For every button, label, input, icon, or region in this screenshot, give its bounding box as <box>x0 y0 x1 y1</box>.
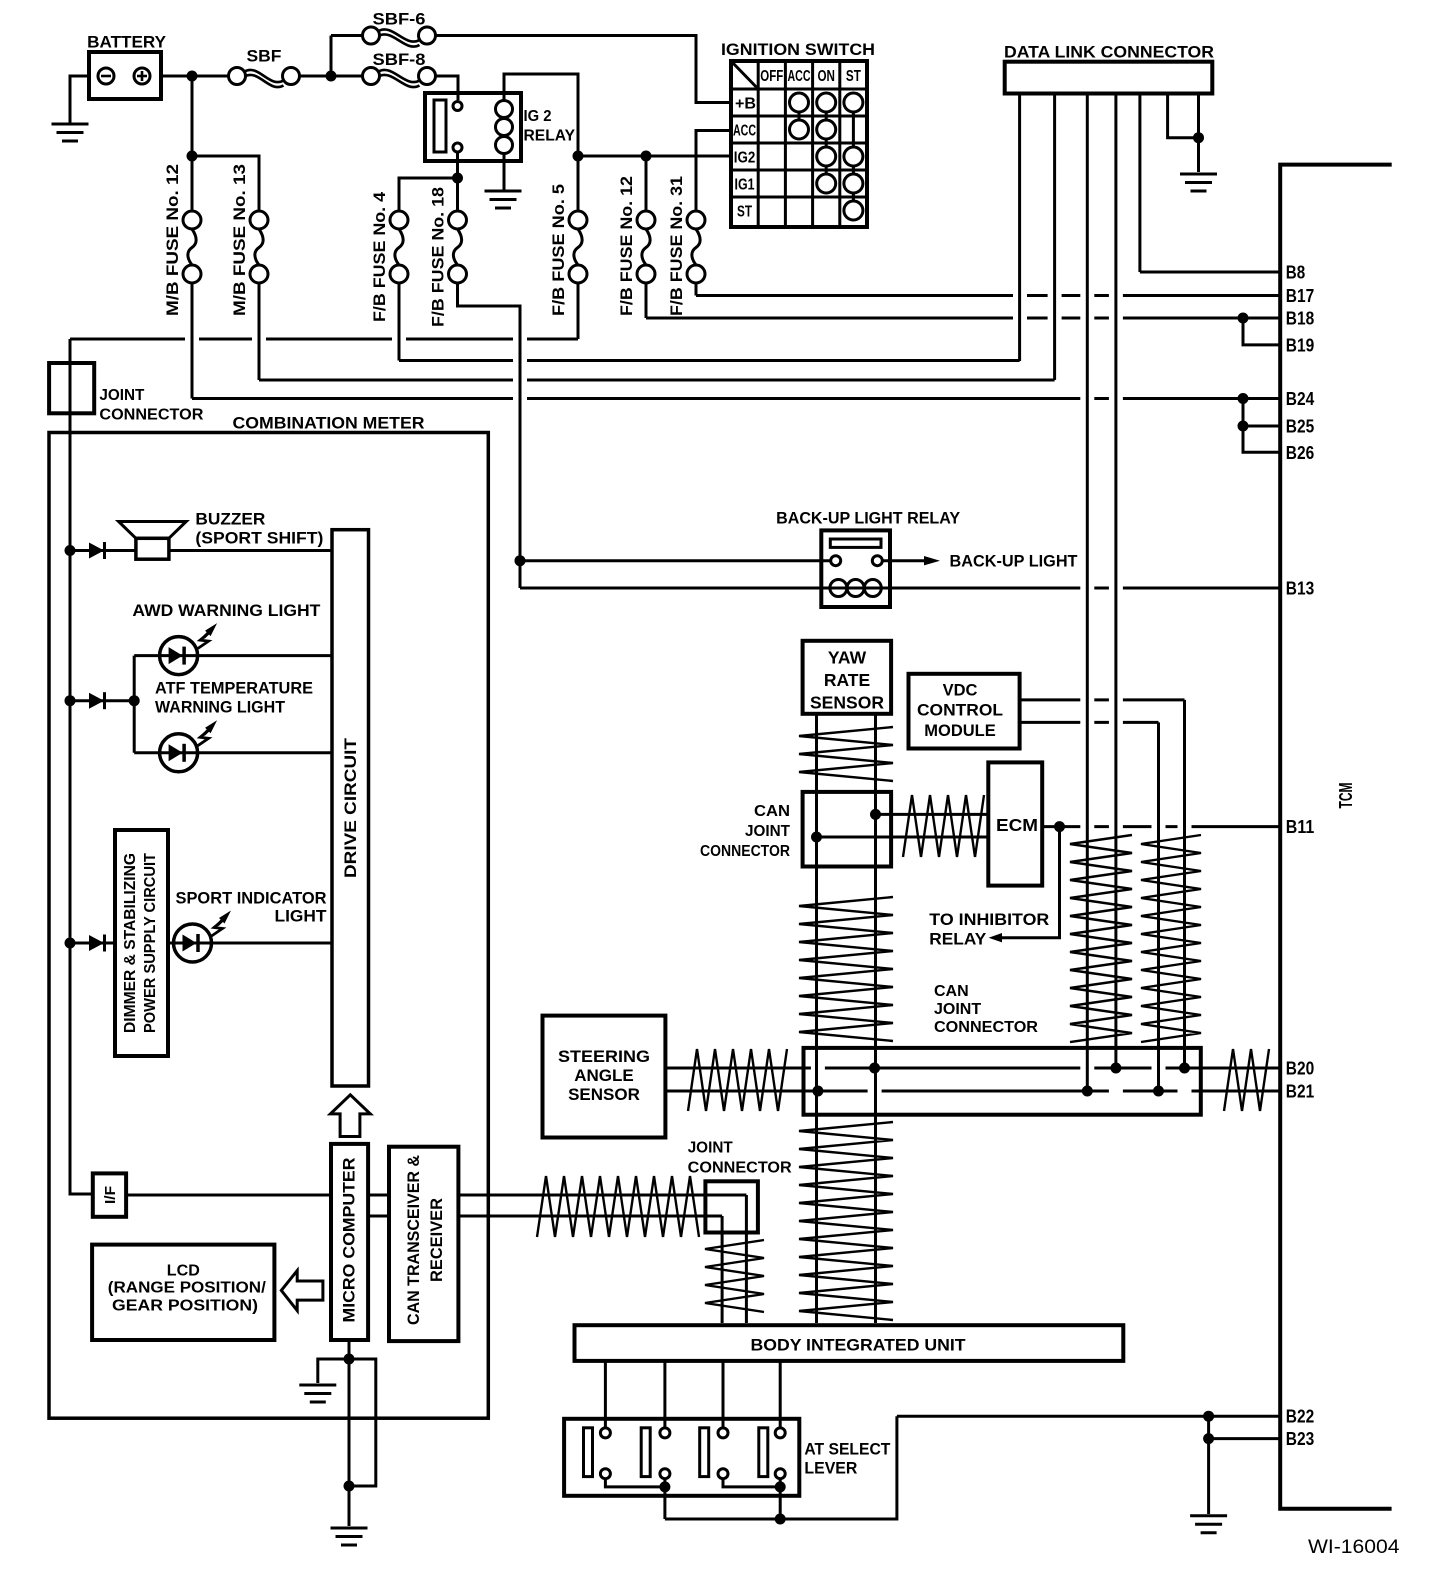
wire yaw rate right <box>874 714 877 1323</box>
wire VDC lower output <box>1020 721 1159 724</box>
ground data link connector <box>1180 174 1217 191</box>
wire VDC upper output <box>1020 698 1185 701</box>
CAN transceiver and receiver box <box>389 1147 458 1341</box>
svg-text:VDC: VDC <box>943 682 978 700</box>
TCM outline <box>1280 165 1392 1509</box>
wire back-up light output <box>883 559 925 562</box>
svg-text:ON: ON <box>817 68 835 85</box>
joint connector box middle <box>705 1181 758 1232</box>
svg-text:(RANGE POSITION/: (RANGE POSITION/ <box>108 1280 267 1297</box>
arrow LCD <box>281 1271 323 1311</box>
svg-text:B19: B19 <box>1286 335 1314 355</box>
svg-text:BACK-UP LIGHT: BACK-UP LIGHT <box>950 552 1079 571</box>
fuse F/B FUSE No. 5 <box>569 211 587 229</box>
svg-text:B26: B26 <box>1286 443 1314 463</box>
svg-text:ACC: ACC <box>788 68 811 85</box>
I/F box <box>93 1173 126 1216</box>
node G junction <box>1193 132 1204 143</box>
CAN joint connector box upper <box>803 792 892 867</box>
svg-text:B25: B25 <box>1286 417 1314 437</box>
svg-text:I/F: I/F <box>102 1186 119 1204</box>
diode D1 <box>70 549 136 552</box>
svg-text:JOINT: JOINT <box>688 1140 733 1157</box>
svg-text:WI-16004: WI-16004 <box>1308 1536 1400 1558</box>
CAN joint connector box lower <box>804 1048 1201 1115</box>
svg-text:JOINT: JOINT <box>99 387 144 404</box>
node N junction <box>344 1481 355 1492</box>
svg-text:SENSOR: SENSOR <box>568 1085 640 1104</box>
svg-text:SBF-8: SBF-8 <box>373 50 426 69</box>
AT select lever bar 2 <box>641 1428 650 1477</box>
wire joint connector bus <box>70 339 93 1194</box>
AT lever contacts top <box>600 1428 610 1438</box>
wire ECM to B11 node <box>1042 825 1059 828</box>
wire battery to node A <box>161 75 192 78</box>
wire SBF to node B <box>300 75 332 78</box>
wire AT common to B22 <box>665 1416 897 1519</box>
twisted pair DLC CAN <box>1070 835 1132 1042</box>
node B21-1 junction <box>812 1086 823 1097</box>
wire B18 from F/B fuse 12 <box>645 283 648 318</box>
wire CAN transceiver to joint connector upper <box>458 1194 746 1197</box>
twisted pair CAN meter <box>537 1176 699 1237</box>
node B20-3 junction <box>1179 1063 1190 1074</box>
wire relay coil to ground <box>503 154 506 192</box>
svg-text:ECM: ECM <box>996 815 1038 835</box>
wire node D to F/B fuse 5 <box>577 156 580 211</box>
svg-text:IGNITION SWITCH: IGNITION SWITCH <box>721 41 875 59</box>
twisted pair VDC CAN <box>1141 835 1201 1042</box>
svg-text:RECEIVER: RECEIVER <box>427 1198 446 1282</box>
svg-text:YAW: YAW <box>828 648 867 668</box>
svg-text:GEAR POSITION): GEAR POSITION) <box>112 1298 258 1315</box>
body integrated unit box <box>575 1325 1124 1361</box>
buzzer (sport shift) <box>136 538 169 559</box>
wire joint connector output 2 <box>721 1216 724 1323</box>
fuse F/B FUSE No. 31 <box>687 211 705 229</box>
wire body unit pin 2 <box>663 1361 666 1428</box>
node B21-3 junction <box>1153 1086 1164 1097</box>
svg-text:SBF: SBF <box>247 47 282 66</box>
twisted pair yaw 1 <box>799 727 893 781</box>
dimmer and stabilizing power supply circuit box <box>115 830 168 1056</box>
relay IG2 contact pin top <box>453 102 462 111</box>
battery <box>89 52 161 99</box>
wire AT lever link 4 <box>779 1479 782 1487</box>
wire AT lever link 3 <box>723 1479 780 1487</box>
wire B11 <box>1060 825 1281 828</box>
wire steering sensor B21 <box>665 1090 1280 1093</box>
wire F/B fuse 18 to back-up relay <box>458 283 521 588</box>
node B23 junction <box>1203 1433 1214 1444</box>
svg-text:CONNECTOR: CONNECTOR <box>688 1160 792 1177</box>
svg-text:M/B FUSE No. 12: M/B FUSE No. 12 <box>164 164 182 316</box>
wire B23 <box>1209 1437 1281 1440</box>
wire node B to SBF-8 <box>331 75 363 78</box>
ground B23 <box>1190 1516 1227 1533</box>
relay IG2 coil <box>496 101 513 118</box>
wire body unit pin 4 <box>779 1361 782 1428</box>
svg-text:BATTERY: BATTERY <box>87 33 167 52</box>
node I junction <box>65 545 76 556</box>
twisted pair steering <box>688 1049 787 1111</box>
ECM box <box>988 762 1042 885</box>
relay IG2 contact pin bottom <box>453 143 462 152</box>
svg-text:DATA LINK CONNECTOR: DATA LINK CONNECTOR <box>1004 43 1214 62</box>
node M junction <box>344 1354 355 1365</box>
svg-text:CONNECTOR: CONNECTOR <box>700 843 790 860</box>
svg-text:BODY INTEGRATED UNIT: BODY INTEGRATED UNIT <box>751 1336 967 1355</box>
svg-text:CONNECTOR: CONNECTOR <box>934 1019 1038 1036</box>
ground bottom <box>331 1528 368 1545</box>
svg-text:CONNECTOR: CONNECTOR <box>99 407 203 424</box>
wire relay contact to node E <box>456 152 459 178</box>
svg-text:RATE: RATE <box>824 670 870 690</box>
wire buzzer to drive circuit <box>169 549 332 552</box>
wire AT common 2 <box>779 1487 782 1519</box>
data link connector pin 2 <box>1053 94 1056 381</box>
ground combination meter <box>299 1385 336 1402</box>
ignition switch table <box>731 61 867 227</box>
node B20-1 junction <box>869 1063 880 1074</box>
wire LED branch vertical <box>133 656 136 753</box>
wire B17 from F/B fuse 31 <box>695 283 698 296</box>
svg-text:F/B FUSE No. 18: F/B FUSE No. 18 <box>430 187 448 327</box>
svg-text:(SPORT SHIFT): (SPORT SHIFT) <box>195 529 323 548</box>
svg-text:CAN: CAN <box>754 803 790 820</box>
node B24 junction <box>1238 393 1249 404</box>
fuse SBF-6 <box>363 27 380 44</box>
wire B23 to ground <box>1207 1416 1210 1514</box>
svg-text:OFF: OFF <box>760 68 783 85</box>
wire node C to M/B fuse 12 <box>191 156 194 211</box>
node B11 junction <box>1054 821 1065 832</box>
svg-text:B24: B24 <box>1286 389 1314 409</box>
node B25 junction <box>1238 421 1249 432</box>
battery positive terminal <box>134 68 150 84</box>
node B22 junction <box>1203 1411 1214 1422</box>
svg-text:STEERING: STEERING <box>558 1047 650 1066</box>
svg-text:LIGHT: LIGHT <box>275 907 328 926</box>
svg-text:ANGLE: ANGLE <box>574 1066 634 1085</box>
wire B25 branch <box>1243 399 1280 427</box>
svg-text:B8: B8 <box>1286 263 1305 283</box>
svg-text:RELAY: RELAY <box>524 128 576 145</box>
svg-text:+B: +B <box>735 96 756 113</box>
svg-text:F/B FUSE No. 5: F/B FUSE No. 5 <box>550 184 568 316</box>
LED ATF temperature warning light <box>160 734 198 772</box>
wire body unit pin 3 <box>722 1361 725 1428</box>
wire relay contact feed <box>520 559 831 562</box>
wire node A down to node C <box>191 76 194 156</box>
node B junction <box>326 71 337 82</box>
ignition switch header diagonal <box>731 61 758 89</box>
svg-text:POWER SUPPLY CIRCUIT: POWER SUPPLY CIRCUIT <box>142 853 159 1033</box>
ignition switch contacts column ON <box>817 93 836 112</box>
VDC control module box <box>909 674 1020 749</box>
svg-text:JOINT: JOINT <box>745 823 790 840</box>
svg-text:MODULE: MODULE <box>924 722 996 740</box>
fuse M/B FUSE No. 12 <box>183 211 201 229</box>
battery negative terminal <box>98 68 114 84</box>
fuse F/B FUSE No. 4 <box>390 211 408 229</box>
svg-text:ST: ST <box>846 68 861 85</box>
node B18 junction <box>1238 313 1249 324</box>
joint connector box top-left <box>49 363 94 413</box>
wire relay coil B13 left <box>520 587 821 590</box>
twisted pair yaw 2 <box>799 897 893 1041</box>
node C junction <box>187 151 198 162</box>
svg-text:TCM: TCM <box>1336 783 1356 809</box>
svg-text:IG2: IG2 <box>734 150 756 167</box>
data link connector box <box>1005 62 1213 94</box>
data link connector pin 3 / CAN line <box>1086 94 1089 1092</box>
svg-text:ST: ST <box>737 204 752 221</box>
steering angle sensor box <box>543 1016 666 1138</box>
svg-text:SENSOR: SENSOR <box>810 693 884 713</box>
node CAN-H junction <box>870 809 881 820</box>
wire CAN transceiver to joint connector lower <box>458 1215 722 1218</box>
node J junction <box>65 695 76 706</box>
wire F/B fuse 5 to joint connector <box>577 283 580 339</box>
wire B22 <box>897 1415 1280 1418</box>
AT lever contacts bottom <box>600 1469 610 1479</box>
wire IG2 row to node D <box>578 155 731 158</box>
LCD box <box>92 1245 274 1340</box>
back-up relay coil <box>821 587 890 590</box>
wire B8 <box>1140 271 1280 274</box>
svg-text:B11: B11 <box>1286 817 1314 837</box>
svg-text:CAN TRANSCEIVER &: CAN TRANSCEIVER & <box>404 1155 423 1325</box>
node AT-2 junction <box>775 1481 786 1492</box>
fuse F/B FUSE No. 12 <box>637 211 655 229</box>
wire to SBF-6 <box>331 34 363 37</box>
svg-text:DRIVE CIRCUIT: DRIVE CIRCUIT <box>341 737 360 878</box>
node D junction <box>573 151 584 162</box>
wire F/B fuse 4 to data link pin 1 <box>398 283 401 361</box>
wire M/B fuse 12 to B24 <box>191 283 194 399</box>
ignition switch contacts column ACC <box>790 93 809 112</box>
AT select lever bar 3 <box>700 1428 709 1477</box>
node CAN-L junction <box>811 832 822 843</box>
svg-text:LCD: LCD <box>167 1263 200 1280</box>
node F junction <box>641 151 652 162</box>
svg-text:BUZZER: BUZZER <box>195 510 265 529</box>
wire steering sensor B20 <box>665 1067 1280 1070</box>
svg-text:F/B FUSE No. 4: F/B FUSE No. 4 <box>371 191 389 322</box>
svg-text:IG 2: IG 2 <box>524 108 552 125</box>
wire CAN joint to ECM lower <box>817 836 989 839</box>
node AT-1 junction <box>659 1481 670 1492</box>
svg-text:TO INHIBITOR: TO INHIBITOR <box>929 910 1049 929</box>
wire SBF-8 to relay contact <box>436 76 459 100</box>
data link connector pin 5 to B8 <box>1138 94 1141 273</box>
wire B26 branch <box>1243 426 1280 452</box>
svg-text:AT SELECT: AT SELECT <box>804 1440 891 1459</box>
node H junction <box>515 555 526 566</box>
wire ground loop <box>349 1359 376 1486</box>
wire node F to F/B fuse 12 <box>645 156 648 211</box>
data link connector pin 1 <box>1018 94 1021 362</box>
svg-text:F/B FUSE No. 12: F/B FUSE No. 12 <box>618 176 636 316</box>
wire node A to SBF <box>192 75 229 78</box>
relay IG2 box <box>425 93 521 161</box>
twisted pair yaw 3 <box>799 1122 893 1320</box>
fuse SBF <box>229 68 246 85</box>
wire node E to F/B fuse 4 <box>399 178 458 211</box>
svg-text:LEVER: LEVER <box>804 1459 857 1478</box>
wire node C to M/B fuse 13 branch <box>192 156 259 211</box>
node B21-2 junction <box>1082 1086 1093 1097</box>
diode D2 <box>70 699 134 702</box>
svg-text:SBF-6: SBF-6 <box>373 10 426 29</box>
svg-text:B18: B18 <box>1286 309 1314 329</box>
wire AT lever link 2 <box>663 1479 666 1487</box>
wire AWD LED row <box>134 654 332 657</box>
svg-text:B20: B20 <box>1286 1059 1314 1079</box>
svg-text:ATF TEMPERATURE: ATF TEMPERATURE <box>155 679 313 698</box>
node A junction <box>187 71 198 82</box>
AT select lever bar 1 <box>584 1428 593 1477</box>
fuse M/B FUSE No. 13 <box>250 211 268 229</box>
node AT-3 junction <box>775 1514 786 1525</box>
svg-text:AWD WARNING LIGHT: AWD WARNING LIGHT <box>132 601 321 620</box>
ground relay <box>485 191 522 208</box>
micro computer box <box>331 1144 368 1340</box>
svg-text:MICRO COMPUTER: MICRO COMPUTER <box>340 1158 359 1323</box>
drive circuit box <box>332 530 369 1086</box>
wire to bottom ground <box>348 1486 351 1526</box>
ignition switch contacts column ST <box>844 93 863 112</box>
twisted pair joint to body unit <box>705 1240 764 1312</box>
wire yaw rate left <box>815 714 818 1323</box>
twisted pair ECM <box>903 795 984 857</box>
wire relay coil to IG2 node D <box>504 74 578 156</box>
LED AWD warning light <box>160 637 198 675</box>
svg-text:B13: B13 <box>1286 579 1314 599</box>
back-up relay contact right <box>872 556 882 566</box>
svg-text:COMBINATION METER: COMBINATION METER <box>233 414 425 433</box>
svg-text:SPORT INDICATOR: SPORT INDICATOR <box>176 889 327 908</box>
wire CAN joint to ECM upper <box>876 813 989 816</box>
svg-text:M/B FUSE No. 13: M/B FUSE No. 13 <box>231 164 249 316</box>
wire M/B fuse 13 to data link pin 2 <box>258 283 261 380</box>
wire micro computer to CAN transceiver lower <box>368 1215 389 1218</box>
wire ignition ACC to F/B fuse 31 <box>696 131 731 212</box>
wire micro computer to CAN transceiver upper <box>368 1194 389 1197</box>
node E junction <box>452 173 463 184</box>
svg-text:F/B FUSE No. 31: F/B FUSE No. 31 <box>668 176 686 316</box>
svg-text:B23: B23 <box>1286 1429 1314 1449</box>
svg-text:B17: B17 <box>1286 286 1314 306</box>
fuse SBF-8 <box>363 68 380 85</box>
LED sport indicator light <box>174 924 212 962</box>
wire body unit pin 1 <box>604 1361 607 1428</box>
wire SBF-6 to ignition +B <box>436 36 732 103</box>
wire micro computer ground <box>348 1340 351 1359</box>
wire node E to F/B fuse 18 <box>456 178 459 211</box>
wire to inhibitor relay <box>1002 827 1060 938</box>
svg-text:ACC: ACC <box>733 123 756 140</box>
wire AT common 1 <box>663 1487 666 1519</box>
svg-text:IG1: IG1 <box>735 177 755 194</box>
back-up relay contact left <box>831 556 841 566</box>
AT select lever bar 4 <box>759 1428 768 1477</box>
svg-text:B21: B21 <box>1286 1082 1314 1102</box>
back-up light relay box <box>821 530 890 607</box>
wire B19 branch <box>1243 318 1280 345</box>
data link connector pin 4 / CAN line <box>1114 94 1117 1069</box>
svg-text:BACK-UP LIGHT RELAY: BACK-UP LIGHT RELAY <box>776 509 961 528</box>
svg-text:CAN: CAN <box>934 983 969 1000</box>
data link connector pin 6 <box>1168 94 1199 138</box>
wire node B up to SBF-6 <box>330 36 333 77</box>
wire AT lever link 1 <box>605 1479 665 1487</box>
wire battery to ground <box>70 76 89 124</box>
svg-text:DIMMER & STABILIZING: DIMMER & STABILIZING <box>122 853 139 1033</box>
AT select lever box <box>564 1419 799 1496</box>
node B20-2 junction <box>1110 1063 1121 1074</box>
svg-text:RELAY: RELAY <box>929 930 987 949</box>
node L junction <box>65 938 76 949</box>
svg-text:WARNING LIGHT: WARNING LIGHT <box>155 698 286 717</box>
svg-text:CONTROL: CONTROL <box>917 702 1003 720</box>
wire I/F to micro computer <box>126 1194 331 1197</box>
yaw rate sensor box <box>803 641 892 714</box>
wire to ground left <box>318 1359 349 1383</box>
arrow drive circuit <box>330 1095 370 1137</box>
fuse F/B FUSE No. 18 <box>449 211 467 229</box>
wire B13 <box>890 587 1280 590</box>
svg-text:B22: B22 <box>1286 1407 1314 1427</box>
wire ATF LED row <box>134 751 332 754</box>
twisted pair TCM stub <box>1224 1049 1269 1111</box>
node K junction <box>129 695 140 706</box>
combination meter box <box>49 433 488 1419</box>
ground battery <box>52 124 89 141</box>
wire sport LED row <box>168 942 332 945</box>
wire joint connector output 1 <box>745 1195 748 1323</box>
diode D3 <box>70 942 115 945</box>
back-up relay top bar <box>830 539 881 547</box>
data link connector pin 7 to ground <box>1197 94 1200 173</box>
svg-text:JOINT: JOINT <box>934 1001 981 1018</box>
relay IG2 contact blade <box>434 100 446 152</box>
